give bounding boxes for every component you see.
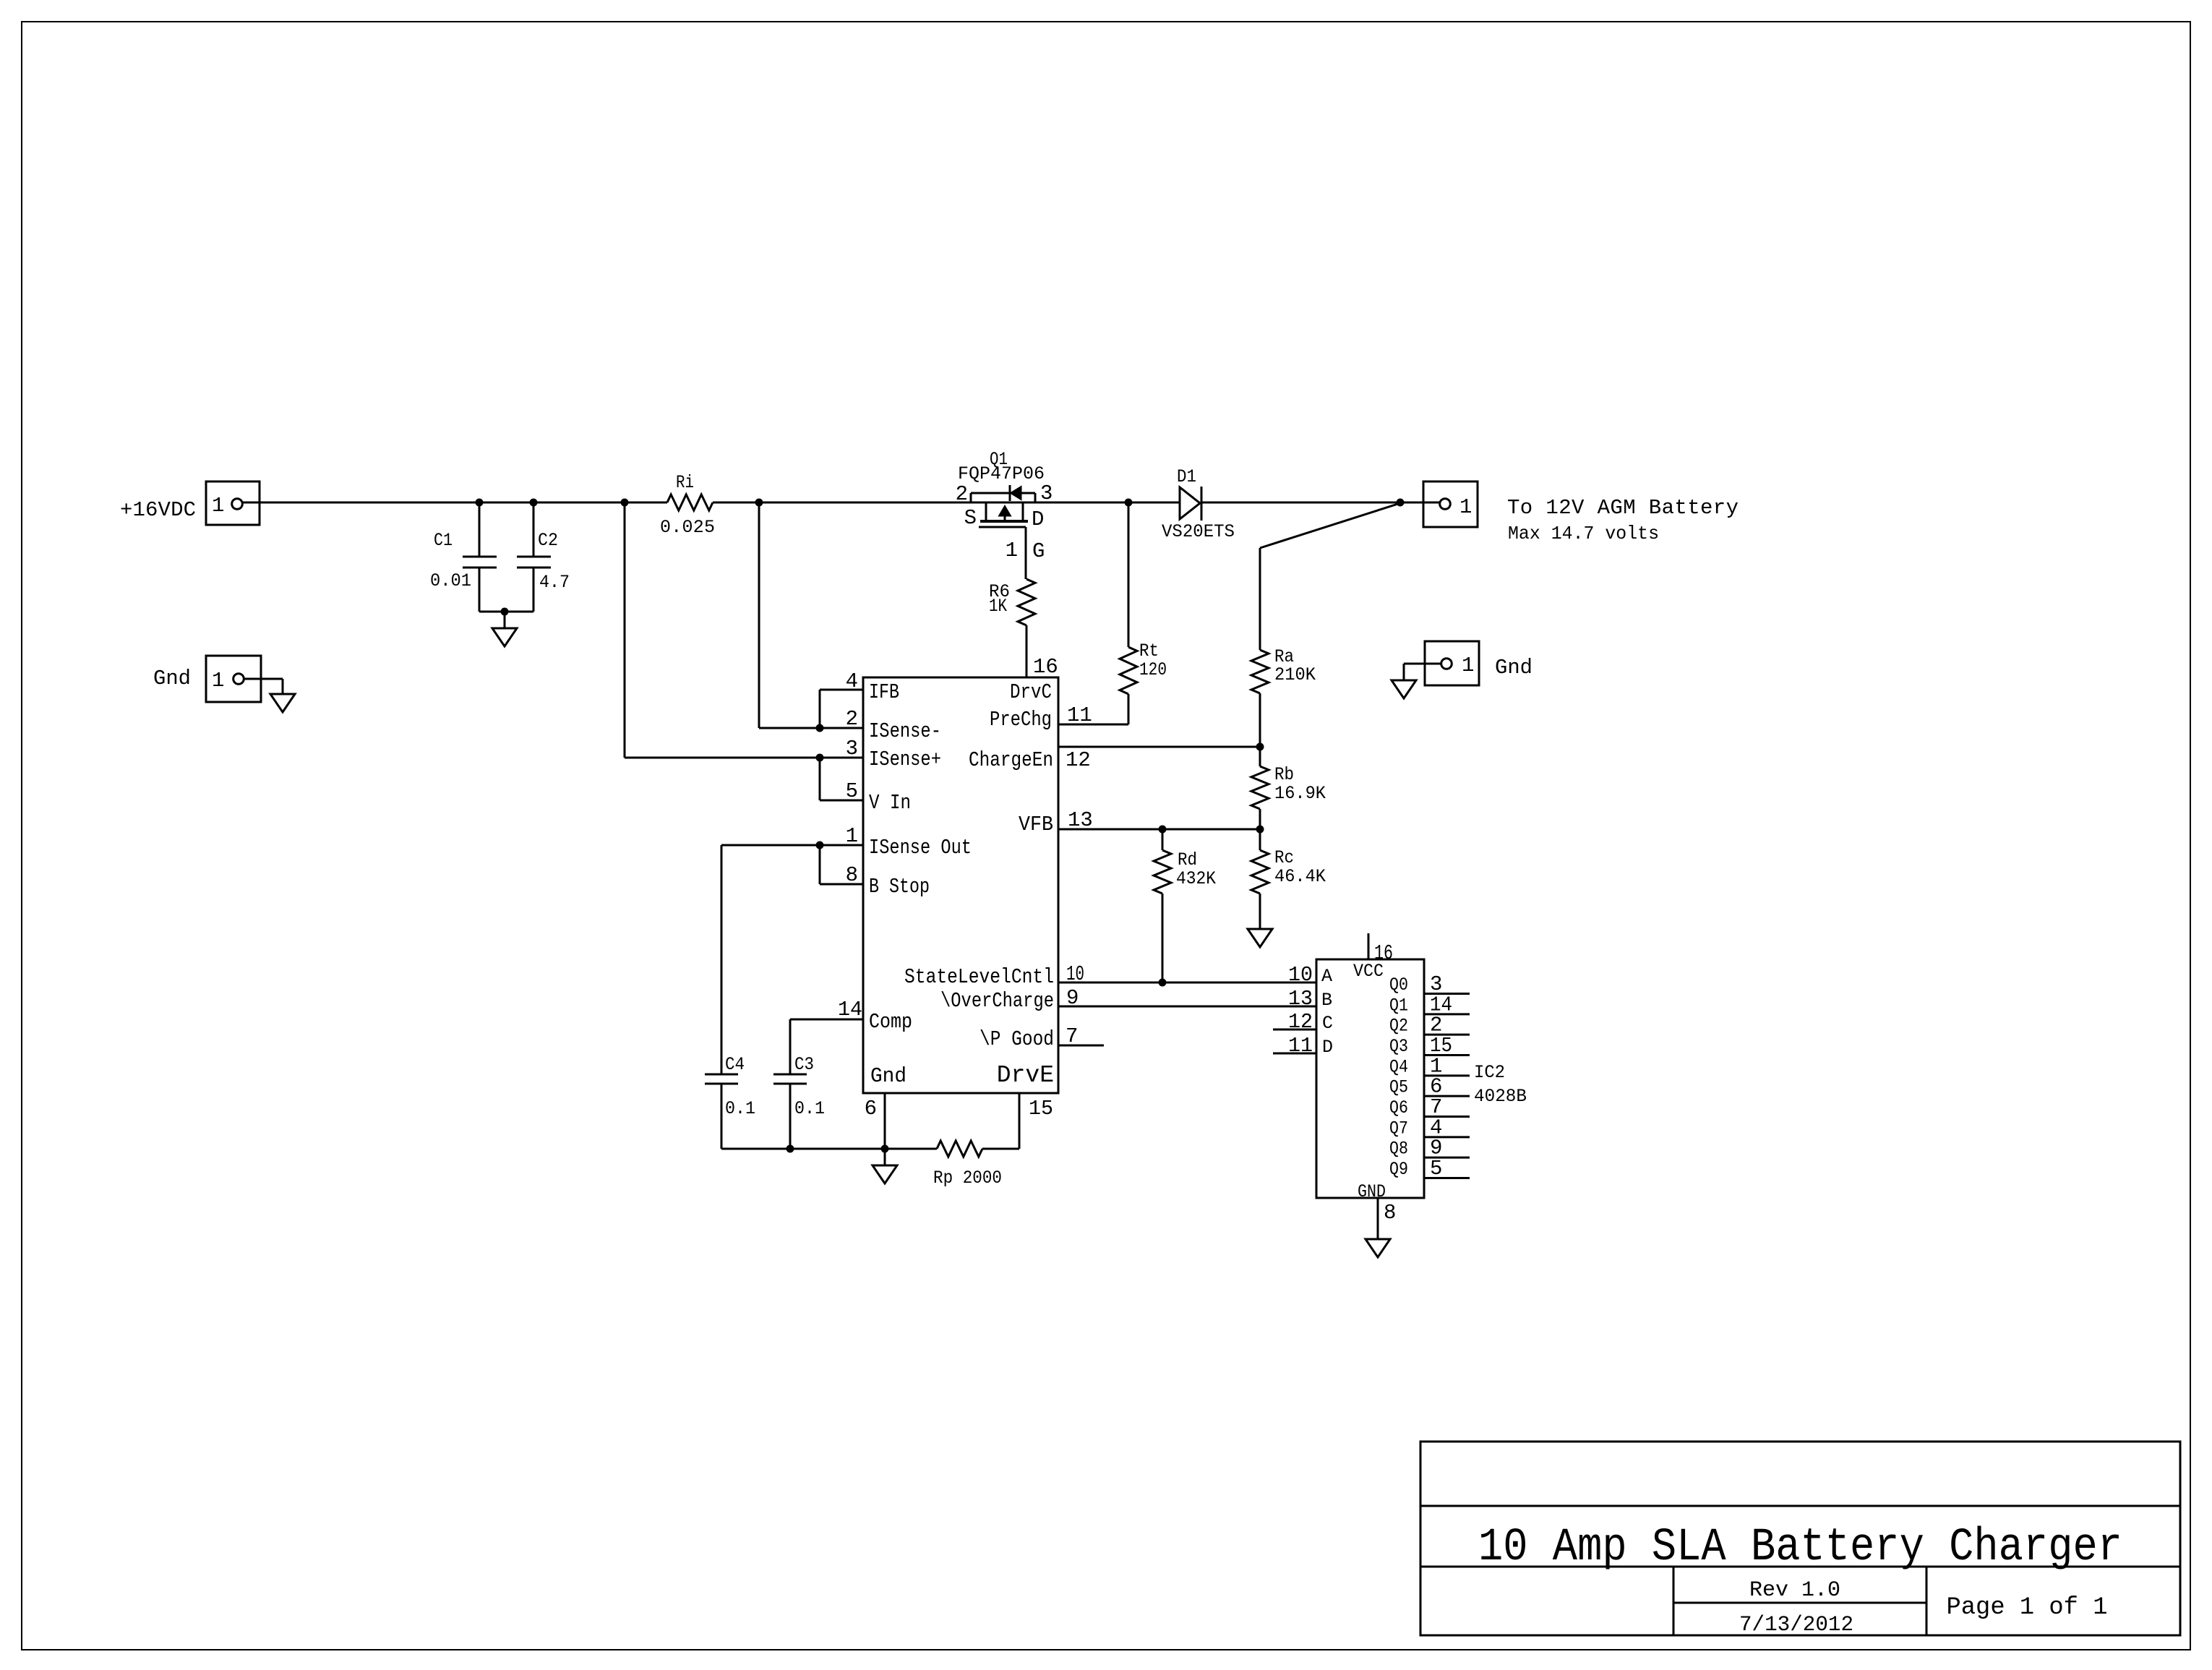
wire to B Stop: [819, 845, 821, 884]
wire C input stub: [1273, 1029, 1316, 1031]
wire StateLevelCntl to IC2 A: [1058, 982, 1316, 984]
ground below right Gnd connector: [1392, 680, 1416, 698]
svg-text:Q6: Q6: [1389, 1097, 1408, 1118]
svg-text:5: 5: [1430, 1157, 1442, 1181]
wire ISense Out pin 1: [721, 844, 863, 847]
wire main rail Ri to D1: [713, 502, 1180, 504]
node ISense+ tap: [621, 499, 629, 507]
node ISense+ / V In junction: [816, 754, 824, 762]
svg-text:6: 6: [865, 1097, 877, 1121]
Q1 body diode: [1009, 485, 1011, 501]
svg-text:210K: 210K: [1274, 664, 1316, 685]
svg-text:Rd: Rd: [1178, 849, 1197, 870]
connector J2 Gnd: [206, 656, 261, 702]
resistor Rt: [1120, 647, 1137, 694]
node C1-C2 gnd junction: [501, 608, 509, 616]
svg-text:16: 16: [1033, 655, 1058, 679]
svg-text:5: 5: [846, 779, 858, 803]
node ISenseOut/BStop junction: [816, 842, 824, 849]
svg-text:10: 10: [1288, 963, 1313, 987]
ground below IC2: [1366, 1239, 1390, 1257]
svg-text:B: B: [1321, 990, 1332, 1011]
wire IC2 GND pin 8: [1377, 1198, 1379, 1239]
wire VCC pin 16 stub: [1368, 933, 1370, 959]
connector J4 Gnd right: [1425, 641, 1479, 685]
wire Q9 stub: [1424, 1177, 1470, 1179]
Q1 source/drain contacts and channel: [985, 502, 987, 521]
resistor Rp: [937, 1141, 982, 1157]
ground below left Gnd connector: [270, 694, 295, 712]
svg-text:2: 2: [956, 482, 968, 506]
wire battery node diagonal to Ra: [1260, 503, 1400, 548]
node Rb/Rc junction: [1256, 826, 1264, 834]
resistor Ri: [667, 494, 713, 510]
node IC1 gnd junction: [881, 1145, 889, 1153]
svg-text:C4: C4: [725, 1054, 745, 1075]
wire Q1 gate to R6: [1025, 527, 1027, 579]
svg-text:1: 1: [1462, 654, 1474, 677]
svg-text:VS20ETS: VS20ETS: [1162, 521, 1235, 542]
svg-text:Rb: Rb: [1274, 764, 1294, 785]
svg-text:G: G: [1032, 539, 1045, 563]
connector J1 +16VDC: [206, 481, 260, 525]
wire D input stub: [1273, 1053, 1316, 1055]
svg-text:Max 14.7 volts: Max 14.7 volts: [1508, 523, 1659, 544]
svg-text:16.9K: 16.9K: [1274, 783, 1326, 804]
wire DrvE pin 15: [1019, 1093, 1021, 1149]
wire Ra to ChargeEn node: [1259, 693, 1261, 747]
svg-text:7: 7: [1066, 1024, 1078, 1048]
node Rt tap: [1125, 499, 1133, 507]
svg-text:432K: 432K: [1176, 868, 1216, 889]
svg-text:B Stop: B Stop: [869, 875, 930, 899]
svg-text:To 12V AGM Battery: To 12V AGM Battery: [1507, 496, 1739, 520]
wire Q3 stub: [1424, 1054, 1470, 1056]
capacitor C2: [533, 502, 535, 557]
svg-text:12: 12: [1066, 748, 1091, 772]
wire P Good stub: [1058, 1045, 1104, 1047]
wire ISense+ horizontal: [625, 757, 863, 759]
wire Q0 stub: [1424, 993, 1470, 995]
resistor Rc: [1251, 850, 1269, 894]
wire VFB pin13: [1058, 828, 1260, 831]
svg-text:C: C: [1322, 1013, 1333, 1034]
node ISense- / IFB junction: [816, 724, 824, 732]
svg-text:+16VDC: +16VDC: [120, 498, 196, 522]
resistor R6: [1018, 579, 1035, 625]
svg-text:13: 13: [1288, 987, 1313, 1011]
wire Rt to PreChg: [1128, 694, 1130, 724]
resistor Rb: [1251, 766, 1269, 809]
svg-text:10: 10: [1066, 962, 1084, 986]
svg-text:4.7: 4.7: [539, 572, 570, 593]
svg-text:Rev 1.0: Rev 1.0: [1749, 1578, 1840, 1603]
ground below Rc: [1248, 929, 1272, 947]
ground below IC1: [873, 1165, 897, 1183]
node ISense- tap: [755, 499, 763, 507]
connector J3 to battery: [1423, 481, 1478, 527]
svg-text:S: S: [964, 506, 977, 530]
svg-text:2: 2: [846, 707, 858, 731]
svg-text:PreChg: PreChg: [990, 708, 1052, 732]
svg-text:9: 9: [1066, 986, 1079, 1010]
resistor Rd: [1154, 850, 1171, 894]
svg-text:FQP47P06: FQP47P06: [958, 463, 1045, 484]
svg-text:IFB: IFB: [869, 680, 899, 704]
svg-text:11: 11: [1067, 703, 1092, 727]
svg-text:14: 14: [838, 998, 862, 1022]
wire ISense+ vertical drop: [624, 502, 626, 758]
resistor Ra: [1251, 650, 1269, 693]
wire R6 to DrvC pin 16: [1026, 625, 1028, 677]
node battery output: [1397, 499, 1405, 507]
Q1 substrate arrow: [1000, 507, 1010, 515]
svg-text:Page 1 of 1: Page 1 of 1: [1947, 1594, 2108, 1622]
svg-text:Gnd: Gnd: [153, 667, 191, 690]
svg-text:Q1: Q1: [1389, 995, 1408, 1016]
IC2 4028B box: [1316, 959, 1424, 1198]
svg-text:StateLevelCntl: StateLevelCntl: [904, 965, 1054, 989]
svg-text:4028B: 4028B: [1474, 1086, 1527, 1107]
svg-text:DrvE: DrvE: [997, 1062, 1054, 1089]
Q1 gate plate: [979, 526, 1026, 528]
svg-text:C2: C2: [538, 530, 558, 551]
svg-text:D: D: [1322, 1037, 1333, 1058]
node Ra/Rb junction: [1256, 743, 1264, 751]
node C1 tap: [476, 499, 484, 507]
wire Q5 stub: [1424, 1095, 1470, 1097]
svg-text:Q7: Q7: [1389, 1118, 1408, 1139]
svg-text:1: 1: [1006, 539, 1018, 562]
svg-text:Comp: Comp: [869, 1010, 912, 1034]
wire to ground: [504, 612, 506, 628]
wire Rd to StateLevelCntl: [1162, 894, 1164, 982]
wire Comp pin 14: [790, 1019, 863, 1021]
wire to IFB pin: [819, 690, 821, 728]
svg-text:IC2: IC2: [1474, 1062, 1505, 1083]
wire Q4 stub: [1424, 1074, 1470, 1076]
svg-text:Gnd: Gnd: [870, 1064, 906, 1088]
node C2 tap: [530, 499, 538, 507]
svg-text:V In: V In: [869, 791, 911, 815]
wire ISense- vertical drop: [758, 502, 760, 728]
svg-text:3: 3: [846, 737, 858, 761]
wire D1 cathode to battery connector: [1201, 502, 1440, 504]
svg-text:1: 1: [212, 669, 224, 693]
title block: [1420, 1442, 2180, 1635]
svg-text:7/13/2012: 7/13/2012: [1739, 1613, 1853, 1637]
svg-text:3: 3: [1040, 481, 1053, 505]
wire Q6 stub: [1424, 1116, 1470, 1118]
wire right Gnd connector to ground: [1404, 663, 1441, 665]
svg-text:Q5: Q5: [1389, 1077, 1408, 1098]
svg-text:8: 8: [1384, 1201, 1396, 1225]
svg-text:DrvC: DrvC: [1010, 680, 1052, 704]
svg-text:4: 4: [846, 669, 858, 693]
svg-text:D1: D1: [1177, 466, 1196, 487]
svg-text:1: 1: [1459, 495, 1472, 519]
svg-text:A: A: [1321, 966, 1332, 987]
svg-text:Gnd: Gnd: [1495, 656, 1532, 680]
svg-text:Q8: Q8: [1389, 1139, 1408, 1160]
wire Q2 stub: [1424, 1034, 1470, 1036]
svg-text:\OverCharge: \OverCharge: [940, 989, 1054, 1013]
svg-text:ChargeEn: ChargeEn: [969, 748, 1053, 772]
svg-text:Ri: Ri: [676, 472, 694, 493]
wire Q7 stub: [1424, 1136, 1470, 1138]
capacitor C1: [479, 502, 481, 557]
svg-text:0.01: 0.01: [430, 570, 471, 591]
IC U1 charge controller box: [863, 677, 1058, 1093]
svg-text:\P Good: \P Good: [979, 1027, 1054, 1051]
svg-text:Q3: Q3: [1389, 1036, 1408, 1057]
svg-text:Rp 2000: Rp 2000: [933, 1168, 1002, 1189]
svg-text:Q9: Q9: [1389, 1159, 1408, 1180]
svg-text:15: 15: [1029, 1097, 1053, 1121]
ground below C1/C2: [492, 628, 517, 646]
wire ChargeEn pin12: [1058, 746, 1260, 748]
svg-text:46.4K: 46.4K: [1274, 866, 1326, 887]
wire Gnd connector to ground: [244, 678, 283, 680]
wire Q8 stub: [1424, 1157, 1470, 1159]
node VFB/Rd junction: [1159, 826, 1167, 834]
node C3 bottom junction: [786, 1145, 794, 1153]
svg-text:VFB: VFB: [1019, 813, 1053, 836]
svg-text:Rt: Rt: [1139, 641, 1159, 661]
svg-text:GND: GND: [1358, 1181, 1386, 1202]
wire to V In pin: [819, 758, 821, 800]
svg-text:D: D: [1032, 508, 1044, 531]
svg-text:10 Amp SLA Battery Charger: 10 Amp SLA Battery Charger: [1478, 1522, 2122, 1574]
svg-text:13: 13: [1068, 808, 1093, 832]
capacitor C3: [789, 1019, 792, 1074]
svg-text:ISense Out: ISense Out: [869, 836, 972, 860]
diode D1 VS20ETS: [1180, 487, 1200, 519]
svg-text:Rc: Rc: [1274, 847, 1294, 868]
svg-text:VCC: VCC: [1353, 961, 1384, 982]
svg-text:120: 120: [1139, 659, 1167, 680]
capacitor C4: [721, 845, 723, 1074]
svg-text:Q2: Q2: [1389, 1016, 1408, 1037]
svg-text:C1: C1: [434, 530, 453, 551]
svg-text:0.1: 0.1: [725, 1098, 755, 1119]
wire C1/C2 bottoms join: [479, 611, 533, 613]
wire main to Rt: [1128, 502, 1130, 647]
wire Gnd pin 6: [884, 1093, 886, 1149]
svg-text:0.1: 0.1: [794, 1098, 825, 1119]
node Rd/StateLevelCntl junction: [1159, 979, 1167, 987]
wire Q1 stub: [1424, 1013, 1470, 1015]
svg-text:Q0: Q0: [1389, 975, 1408, 995]
svg-text:0.025: 0.025: [660, 517, 715, 538]
wire OverCharge to IC2 B: [1058, 1006, 1316, 1008]
wire ISense- horizontal: [759, 727, 863, 729]
svg-text:ISense-: ISense-: [869, 719, 941, 743]
svg-text:C3: C3: [794, 1054, 814, 1075]
svg-text:1: 1: [212, 494, 224, 518]
wire bottom ground rail: [721, 1148, 937, 1150]
svg-text:Q4: Q4: [1389, 1056, 1408, 1077]
svg-text:1K: 1K: [989, 596, 1007, 617]
transistor Q1 FQP47P06 body-diode bar: [971, 492, 1035, 494]
wire main +16V rail left of Ri: [242, 502, 667, 504]
svg-text:ISense+: ISense+: [869, 748, 941, 771]
